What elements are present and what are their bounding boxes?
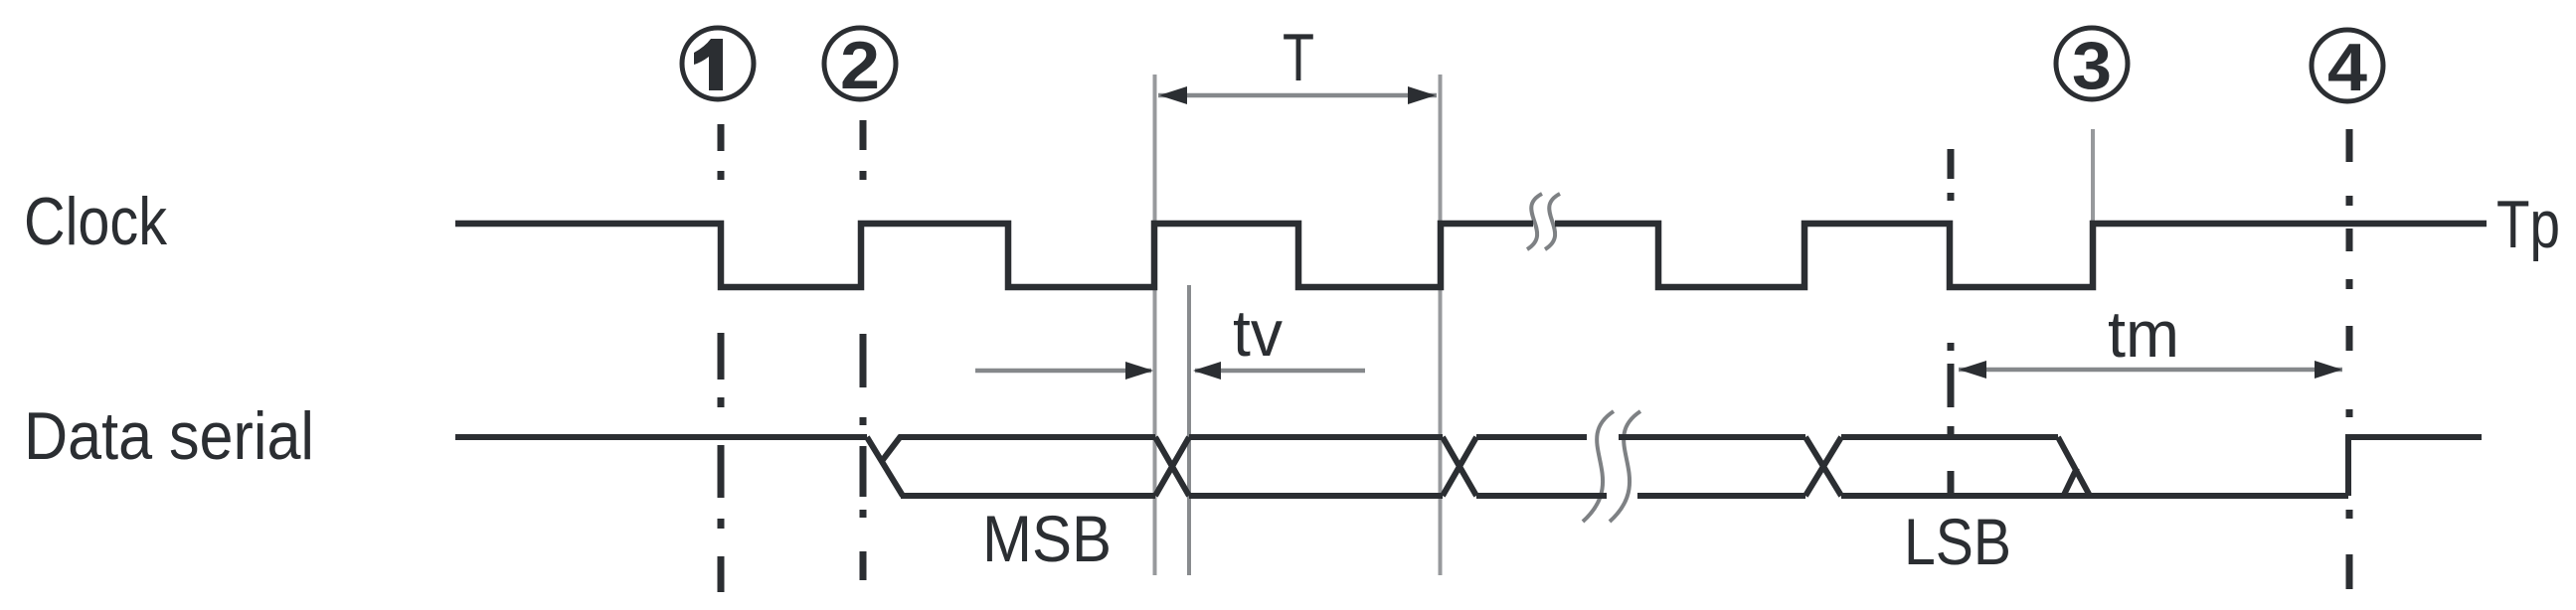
data bus LSB segment top rail xyxy=(1841,434,2058,440)
dimension tm arrow left xyxy=(1959,361,1986,379)
clock waveform xyxy=(455,224,2487,287)
data bus segment 3 top rail with break gap xyxy=(1476,434,1805,440)
data final rising edge and high line xyxy=(2348,437,2482,496)
dimension T arrow left xyxy=(1159,86,1187,104)
data fork diagonal high-to-low xyxy=(867,437,903,496)
data bus MSB segment top rail xyxy=(899,434,1155,440)
data serial waveform: idle high line xyxy=(455,434,867,440)
svg-text:Data serial: Data serial xyxy=(24,398,314,474)
data crossover X2 xyxy=(1443,437,1476,496)
svg-text:3: 3 xyxy=(2072,28,2112,103)
dimension tv line right part xyxy=(1195,369,1365,374)
marker dash-dot line 1 xyxy=(718,124,725,592)
dimension T arrow right xyxy=(1408,86,1436,104)
dimension tm line xyxy=(1959,368,2342,373)
svg-text:Clock: Clock xyxy=(24,184,168,259)
T period boundary line right (thin gray vertical at next rising edge) xyxy=(1439,75,1443,575)
svg-text:4: 4 xyxy=(2327,30,2367,105)
data break squiggle right xyxy=(1610,411,1640,522)
svg-text:MSB: MSB xyxy=(982,502,1112,575)
svg-text:2: 2 xyxy=(840,28,880,103)
svg-text:tm: tm xyxy=(2108,297,2179,371)
marker dash-dot line 2 xyxy=(860,120,867,580)
dimension tv line left part xyxy=(975,369,1151,374)
clock break squiggle right xyxy=(1545,194,1560,249)
data bus segment 2 top rail xyxy=(1189,434,1443,440)
dimension tm arrow right xyxy=(2315,361,2342,379)
svg-text:T: T xyxy=(1283,20,1314,95)
dimension T line xyxy=(1158,93,1437,98)
marker circle 2 xyxy=(824,28,896,99)
data crossover X1 xyxy=(1155,437,1189,496)
svg-text:tv: tv xyxy=(1233,296,1283,370)
data bus LSB segment bottom rail continuing low xyxy=(1841,493,2348,499)
marker dash-dot line 4 xyxy=(2346,129,2353,589)
data bus LSB close rising tail xyxy=(2064,468,2077,495)
data bus segment 2 bottom rail xyxy=(1189,493,1443,499)
clock break squiggle left xyxy=(1527,194,1542,249)
marker circle 4 xyxy=(2312,30,2383,101)
T period boundary line left (thin gray vertical at first rising edge) xyxy=(1153,75,1157,575)
data bus LSB close diagonal xyxy=(2058,437,2090,496)
data crossover X3 xyxy=(1805,437,1841,496)
tv data-valid reference line (thin gray vertical) xyxy=(1187,285,1191,575)
marker circle 1 xyxy=(682,28,754,99)
dimension tv arrow (points right at T boundary) xyxy=(1125,362,1153,380)
data fork diagonal to bus top xyxy=(882,436,901,461)
data bus MSB segment bottom rail xyxy=(901,493,1155,499)
marker dash-dot line 3 (tm start, clock falling edge) xyxy=(1948,149,1955,499)
dimension tv arrow (points left at data-valid line) xyxy=(1193,362,1221,380)
svg-text:Tp: Tp xyxy=(2496,187,2560,262)
marker circle 3 xyxy=(2056,28,2128,99)
data bus segment 3 bottom rail with break gap xyxy=(1476,493,1805,499)
data break squiggle left xyxy=(1583,411,1614,522)
marker solid line under circle 3 xyxy=(2091,129,2095,223)
svg-text:LSB: LSB xyxy=(1904,505,2011,578)
